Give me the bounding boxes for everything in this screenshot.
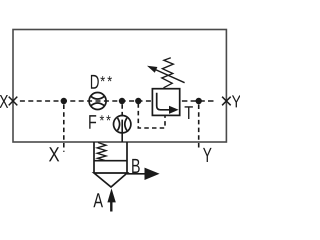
pilot relief valve internal flow arrow <box>157 93 170 110</box>
main valve body left edge <box>93 142 95 173</box>
port label X (left side) <box>0 95 8 108</box>
main valve spring <box>97 143 106 161</box>
port label Y (right side) <box>232 95 241 107</box>
label T <box>185 106 193 119</box>
throttle F <box>114 116 131 133</box>
wire: throttle F to envelope bottom (main valve) <box>121 120 123 142</box>
label A <box>93 193 103 207</box>
wire: dashed Y port drop line <box>198 105 200 149</box>
orifice D <box>89 93 106 110</box>
port label X (bottom) <box>49 147 59 161</box>
main poppet seat triangle <box>94 173 127 187</box>
plugged port cross at right Y <box>222 97 231 106</box>
pilot relief valve body <box>152 89 179 116</box>
label B <box>132 159 140 173</box>
wire: dashed X port drop line <box>63 105 65 152</box>
junction node at Y branch <box>196 98 202 104</box>
junction node above throttle F <box>119 98 125 104</box>
label D** <box>91 75 112 89</box>
adjustment arrow across spring <box>156 70 185 83</box>
port label Y (bottom) <box>203 148 212 162</box>
wire: dashed pilot line, relief square to right edge <box>182 100 216 102</box>
plugged port cross at left X <box>9 97 18 106</box>
main valve body right edge <box>126 142 128 174</box>
port B flow arrow <box>127 173 146 175</box>
wire: dashed drop from junction through throttle F <box>121 104 123 116</box>
wire: dashed pilot sensing path below relief valve <box>138 103 165 128</box>
label F** <box>89 115 111 129</box>
adjustable spring of pilot relief valve <box>162 58 174 88</box>
port A flow arrow <box>110 200 112 212</box>
wire: dashed pilot line across envelope <box>18 100 153 102</box>
junction node at X branch <box>61 98 67 104</box>
valve envelope frame <box>13 30 226 143</box>
main valve internal line <box>94 160 127 162</box>
junction node at pilot drain branch <box>135 98 141 104</box>
